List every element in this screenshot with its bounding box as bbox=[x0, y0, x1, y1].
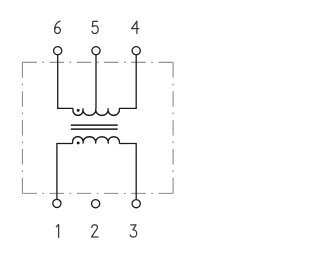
pin 6 label bbox=[55, 21, 61, 33]
pin 1 terminal circle bbox=[53, 199, 61, 207]
boundary box top edge (dash-dot) bbox=[22, 61, 173, 63]
pin 2 label bbox=[92, 225, 99, 237]
pin 3 label bbox=[130, 225, 137, 237]
secondary winding junction stems bbox=[73, 141, 120, 144]
pin 5 terminal circle bbox=[92, 47, 100, 55]
boundary box right edge (dash-dot) bbox=[172, 62, 174, 193]
pin 1 label bbox=[56, 225, 58, 238]
primary winding L1 (4 arcs) bbox=[73, 111, 119, 115]
primary winding junction stems bbox=[73, 108, 119, 111]
wire pin5 center tap bbox=[95, 55, 97, 108]
wire secondary to pin1 bbox=[57, 144, 73, 199]
secondary winding L2 (4 arcs) bbox=[73, 137, 120, 141]
core line lower bbox=[71, 128, 118, 130]
core line upper bbox=[71, 124, 118, 126]
wire pin6 to primary winding bbox=[58, 55, 73, 108]
pin 5 label bbox=[92, 21, 98, 33]
boundary box left edge (dash-dot) bbox=[21, 62, 23, 193]
wire secondary to pin3 bbox=[119, 144, 136, 199]
wire pin4 to primary winding bbox=[119, 55, 136, 108]
pin 2 terminal circle (unconnected) bbox=[92, 200, 100, 208]
pin 4 terminal circle bbox=[132, 47, 140, 55]
pin 3 terminal circle bbox=[132, 200, 140, 208]
pin 4 label bbox=[132, 21, 139, 33]
secondary polarity dot bbox=[77, 141, 80, 144]
pin 6 terminal circle bbox=[54, 47, 62, 55]
primary polarity dot bbox=[77, 109, 80, 112]
boundary box bottom edge (dash-dot) bbox=[22, 192, 173, 194]
